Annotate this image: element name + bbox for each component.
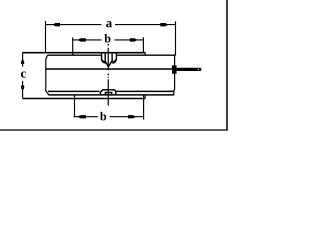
dim a line left segment: [46, 24, 102, 26]
top boss outer wall left: [101, 53, 103, 60]
top boss inner wall right: [111, 53, 113, 61]
bottom boss outer wall right: [115, 92, 117, 95]
top boss drill point V: [105, 61, 112, 66]
bottom boss dome: [100, 90, 116, 93]
dim b top arrow right: [130, 38, 138, 41]
dim b bottom arrow right: [128, 115, 136, 118]
body flange bottom line H5: [48, 94, 174, 96]
dim a ext line right: [175, 21, 177, 55]
top boss inner wall left: [104, 53, 106, 61]
dim b top arrow left: [78, 38, 86, 41]
centerline dot top: [107, 44, 109, 46]
dim b bottom line left segment: [73, 116, 97, 118]
centerline dot mid: [107, 77, 109, 78]
top boss outer wall right: [115, 53, 117, 60]
dim a line right segment: [115, 24, 175, 26]
frame right border: [226, 0, 228, 131]
dim c arrow up: [21, 59, 24, 64]
dim b bottom line right segment: [110, 116, 144, 118]
centerline solid through bottom boss: [107, 79, 109, 105]
bottom boss inner hole: [105, 93, 111, 95]
bottom boss outer wall left: [99, 92, 101, 95]
dim a arrow right: [160, 23, 168, 26]
body inner line H3: [46, 68, 175, 70]
bottom hub right edge tick: [144, 95, 146, 99]
dim b top line right segment: [115, 39, 144, 41]
dim c line bottom segment: [22, 81, 24, 98]
top boss right hook wedge: [112, 59, 117, 64]
label b bottom: [100, 112, 106, 121]
flange right edge: [173, 55, 176, 95]
label b top: [104, 34, 110, 43]
body flange top line H2 right part: [117, 54, 175, 56]
flange left edge: [46, 55, 48, 95]
frame bottom border: [0, 129, 228, 131]
body flange top line H2 left part: [48, 54, 101, 56]
cable end dot: [198, 69, 199, 70]
top hub right edge tick: [144, 53, 146, 56]
cable: [177, 68, 202, 71]
top hub left edge tick: [72, 53, 74, 56]
top boss left hook wedge: [101, 59, 106, 64]
dim b bottom arrow left: [78, 115, 87, 118]
centerline solid through top boss: [107, 48, 109, 71]
dim c line top segment: [22, 53, 24, 67]
dim b top ext line left: [72, 37, 74, 55]
dim b top line left segment: [73, 39, 102, 41]
dim a ext line left: [45, 21, 47, 53]
body top surface line H1: [22, 52, 145, 54]
body bottom surface line H6: [22, 98, 145, 100]
dim a arrow left: [53, 23, 61, 26]
dim b bottom ext line left: [74, 95, 76, 117]
body inner line H4 left part: [48, 90, 100, 92]
cable gland: [172, 65, 177, 73]
dim c arrow down: [21, 85, 24, 90]
dim b bottom ext line right: [143, 95, 145, 120]
label a: [106, 21, 112, 27]
dim b top ext line right: [142, 37, 144, 52]
label c: [21, 71, 26, 77]
centerline dash mid: [107, 74, 109, 76]
body inner line H4 right part: [117, 90, 175, 92]
